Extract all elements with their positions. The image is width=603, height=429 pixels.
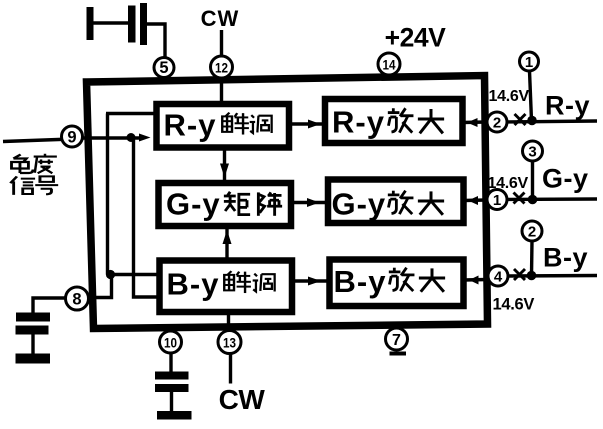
block B-Y amp [330, 260, 464, 307]
arrow pin 4 into B-Y amp [464, 276, 488, 285]
block R-Y demod [157, 104, 290, 148]
svg-text:14: 14 [383, 57, 396, 73]
svg-text:10: 10 [164, 335, 177, 351]
svg-text:14.6V: 14.6V [488, 175, 529, 192]
svg-text:R-y: R-y [164, 108, 217, 143]
wire junction to terminal 2 [530, 241, 534, 276]
wire junction to terminal 3 [531, 161, 534, 200]
terminal 3 [523, 141, 543, 161]
capacitor C1 left plate [128, 6, 136, 43]
arrow pin 1 into G-Y amp [464, 196, 487, 205]
capacitor C1 right plate [140, 3, 147, 45]
wire C1 lead to C1 [93, 21, 129, 24]
arrow pin 2 into R-Y amp [463, 118, 487, 127]
wire junction to terminal 1 [530, 71, 532, 121]
pin 13 [218, 331, 241, 354]
label 14.6V (G-Y) [488, 175, 529, 192]
junction G-Y output [528, 195, 538, 205]
wire B-Y output line [506, 274, 597, 278]
X mark on B-Y output [514, 269, 525, 280]
label +24V [385, 23, 446, 53]
svg-text:14.6V: 14.6V [489, 88, 530, 105]
wire pin 8 to junction [88, 272, 112, 298]
label B-y output [543, 243, 588, 273]
capacitor C3 top plate [155, 372, 189, 380]
svg-text:3: 3 [528, 144, 536, 161]
pin 1 [487, 190, 507, 210]
IC outline main box [87, 76, 488, 329]
wire R-Y output line [505, 121, 597, 122]
wire chroma input to pin 9 [3, 139, 72, 142]
junction on pin 9 line [127, 133, 136, 142]
svg-text:8: 8 [72, 291, 81, 309]
wire vertical branch B down to B-Y demod [134, 138, 161, 298]
svg-text:CW: CW [219, 384, 266, 415]
svg-text:2: 2 [528, 224, 536, 241]
svg-text:2: 2 [493, 115, 501, 132]
wire to B-Y demod upper input [108, 273, 161, 276]
pin 8 [66, 287, 89, 310]
terminal 1 [520, 52, 539, 71]
wire C2 to ground [31, 335, 34, 355]
ground bar under C2 [16, 354, 51, 364]
label R-y output [545, 91, 590, 121]
wire G-Y output line [505, 197, 597, 201]
block R-Y amp [325, 99, 463, 143]
svg-text:4: 4 [494, 269, 503, 286]
wire CW to pin 12 [220, 30, 223, 57]
wire pin 13 to CW [229, 354, 232, 384]
svg-text:13: 13 [223, 335, 236, 351]
pin 4 [488, 266, 508, 286]
svg-text:9: 9 [67, 129, 76, 147]
wire pin 9 into IC with arrow to R-Y demod [82, 134, 151, 142]
junction R-Y output [527, 116, 537, 126]
svg-text:G-y: G-y [166, 187, 221, 222]
label CW (top) [201, 6, 240, 31]
svg-text:1: 1 [493, 192, 501, 209]
label G-y output [542, 164, 589, 194]
ground bar under C3 [157, 411, 192, 420]
junction B-Y output [527, 271, 537, 281]
svg-text:G-y: G-y [332, 187, 387, 222]
svg-text:CW: CW [201, 6, 240, 31]
block B-Y demod [160, 261, 293, 313]
wire vertical branch A (to R-Y demod top input and down to B-Y demod) [106, 114, 109, 275]
label 14.6V (R-Y) [489, 88, 530, 105]
label CW (bottom) [219, 384, 266, 415]
label chroma signal line2 (XIN HAO) [10, 176, 58, 195]
svg-text:14.6V: 14.6V [493, 296, 535, 314]
capacitor C3 bottom plate [155, 384, 189, 392]
wire B-Y demod to pin 13 [227, 312, 230, 332]
ground dash under pin 7 [390, 352, 407, 356]
X mark on R-Y output [515, 114, 526, 125]
svg-text:B-y: B-y [167, 267, 220, 302]
wire branch A to R-Y demod input [106, 112, 157, 115]
svg-text:R-y: R-y [545, 91, 590, 121]
pin 12 [211, 56, 233, 78]
arrow B-Y demod to B-Y amp [292, 277, 330, 286]
svg-text:1: 1 [525, 54, 533, 71]
block G-Y amp [328, 180, 464, 224]
svg-text:12: 12 [215, 60, 228, 76]
pin 2 [487, 112, 507, 132]
wire pin 10 to capacitor C3 [169, 353, 172, 372]
arrow R-Y demod to R-Y amp [289, 120, 325, 129]
label 14.6V (B-Y) [493, 296, 535, 314]
svg-text:G-y: G-y [542, 164, 589, 194]
block G-Y matrix [159, 183, 292, 226]
wire C1 to pin 5 [147, 24, 165, 60]
wire C3 to ground [170, 392, 173, 411]
X mark on G-Y output [514, 193, 525, 204]
label chroma signal line1 (SE DU) [12, 154, 57, 173]
arrow R-Y demod to G-Y matrix [220, 148, 229, 184]
svg-text:7: 7 [392, 332, 401, 349]
svg-text:B-y: B-y [334, 264, 387, 299]
pin 9 [62, 126, 83, 147]
capacitor C2 top plate [16, 313, 50, 322]
svg-text:+24V: +24V [385, 23, 446, 53]
pin 5 [154, 58, 174, 78]
svg-text:B-y: B-y [543, 243, 588, 273]
svg-text:R-y: R-y [332, 105, 385, 140]
terminal 2 [522, 221, 542, 241]
wire pin 8 to capacitor C2 [33, 298, 66, 313]
junction B-Y demod upper input [106, 270, 115, 279]
pin 7 [386, 328, 408, 350]
capacitor C1 plate lead (top-left) [87, 7, 94, 40]
svg-text:5: 5 [159, 59, 168, 77]
arrow G-Y matrix to G-Y amp [291, 198, 328, 207]
wire pin 12 to R-Y demod [220, 77, 223, 104]
pin 10 [160, 331, 182, 353]
arrow B-Y demod to G-Y matrix [223, 227, 232, 261]
pin 14 [378, 53, 400, 75]
capacitor C2 bottom plate [16, 326, 49, 335]
